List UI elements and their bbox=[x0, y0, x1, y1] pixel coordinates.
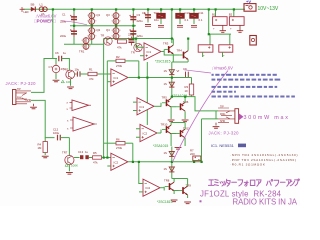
svg-text:C6: C6 bbox=[55, 51, 59, 55]
ground R4 bbox=[42, 156, 49, 158]
svg-text:TR3: TR3 bbox=[163, 42, 169, 46]
pu bbox=[295, 179, 300, 186]
svg-text:C5: C5 bbox=[142, 11, 146, 15]
transistor pair Q4 row2 bbox=[106, 26, 121, 40]
ground jack J2 bbox=[213, 127, 220, 129]
wire base rail ch1 PNP bbox=[160, 103, 162, 107]
svg-text:TR7: TR7 bbox=[62, 150, 68, 154]
op-amp IC1B bbox=[136, 39, 164, 61]
svg-text:Q3: Q3 bbox=[106, 13, 110, 17]
transistor TR8 npn bbox=[164, 179, 174, 195]
svg-text:IC2: IC2 bbox=[114, 160, 119, 164]
svg-text:·R0,R1 3Ω1MΩOK: ·R0,R1 3Ω1MΩOK bbox=[230, 162, 266, 166]
svg-text:TIP: TIP bbox=[220, 106, 224, 109]
svg-text:1M: 1M bbox=[38, 146, 43, 150]
svg-text:TIP: TIP bbox=[17, 88, 21, 91]
svg-text:C13: C13 bbox=[78, 150, 84, 154]
svg-text:1S: 1S bbox=[164, 69, 168, 73]
svg-text:+: + bbox=[230, 27, 232, 31]
filter cell column C2 row2 bbox=[60, 26, 77, 45]
svg-text:10u: 10u bbox=[154, 18, 159, 22]
svg-text:270k: 270k bbox=[116, 146, 123, 150]
svg-text:TR: TR bbox=[101, 34, 105, 38]
op-amp IC1C bbox=[133, 98, 161, 115]
diode D1 SB bbox=[30, 3, 35, 12]
wa bbox=[274, 180, 278, 186]
svg-text:+V: +V bbox=[246, 0, 251, 4]
svg-text:R6: R6 bbox=[116, 138, 120, 142]
svg-text:TR5: TR5 bbox=[162, 95, 168, 99]
transistor TR7 fet bbox=[62, 150, 74, 164]
transistor pair Q2 row2 bbox=[87, 26, 101, 45]
diode D4 bbox=[164, 151, 175, 156]
svg-text:TR1: TR1 bbox=[79, 50, 85, 54]
wire: +V rail bbox=[22, 8, 245, 10]
annotation top-left magenta bbox=[34, 13, 87, 24]
svg-text:100u: 100u bbox=[53, 131, 60, 135]
wire: lower bus right bbox=[104, 38, 172, 40]
svg-text:IC1: IC1 bbox=[147, 50, 152, 54]
bar bbox=[232, 181, 237, 183]
svg-text:RNG: RNG bbox=[17, 96, 22, 99]
transistor pair Q1 bbox=[87, 9, 101, 25]
connector X2 bbox=[250, 36, 256, 46]
cap C5 with gnd bbox=[142, 9, 151, 26]
svg-text:10u: 10u bbox=[75, 67, 80, 71]
wire: lower bus left bbox=[64, 39, 104, 45]
wire base rail ch1 NPN bbox=[164, 50, 179, 56]
op-amp spare IC2C bbox=[67, 100, 92, 111]
svg-text:C10: C10 bbox=[185, 11, 191, 15]
svg-text:IC2: IC2 bbox=[143, 132, 148, 136]
op-amp IC2B bbox=[139, 162, 164, 196]
svg-text:TR: TR bbox=[131, 51, 135, 55]
cap C8 bbox=[75, 67, 89, 76]
n bbox=[290, 181, 294, 186]
svg-text:x: x bbox=[67, 119, 69, 123]
svg-text:IC1. NE5531: IC1. NE5531 bbox=[211, 143, 235, 148]
cap C13 ceramic bbox=[74, 150, 92, 159]
svg-text:L1: L1 bbox=[40, 3, 44, 7]
svg-text:↓Vmax6.6V: ↓Vmax6.6V bbox=[212, 66, 234, 71]
battery box B1 bbox=[212, 9, 227, 32]
svg-text:IC1: IC1 bbox=[140, 105, 145, 109]
transistor TR10 pnp bbox=[161, 123, 172, 147]
svg-text:47k: 47k bbox=[93, 161, 98, 165]
ground TR7 bbox=[68, 165, 70, 172]
svg-text:47k: 47k bbox=[117, 46, 122, 50]
bar2 bbox=[280, 181, 285, 183]
op-amp IC1A bbox=[107, 69, 191, 86]
svg-text:220u: 220u bbox=[137, 34, 144, 38]
svg-text:LED: LED bbox=[24, 10, 29, 14]
coupling cap box CO1 bbox=[198, 34, 213, 57]
ground C7 bbox=[53, 80, 60, 82]
long vertical bus A bbox=[103, 44, 105, 157]
wire emitter join ch2 top bbox=[171, 122, 185, 124]
green triangle marker TR2 label bbox=[61, 80, 64, 83]
svg-text:RNG: RNG bbox=[220, 113, 225, 116]
svg-text:TR4: TR4 bbox=[177, 49, 183, 53]
node +V stub left bbox=[20, 7, 29, 14]
wire: right drop bbox=[209, 9, 231, 34]
svg-text:*2SA1015: *2SA1015 bbox=[153, 144, 168, 148]
ground TR9 bbox=[184, 202, 191, 204]
transistor TR4 npn bbox=[177, 39, 189, 63]
filter cap C3 bbox=[129, 9, 143, 25]
svg-text:220u: 220u bbox=[128, 33, 135, 37]
svg-text:SB: SB bbox=[30, 3, 34, 7]
svg-text:1S: 1S bbox=[164, 151, 168, 155]
svg-text:Q1: Q1 bbox=[97, 13, 101, 17]
svg-text:+: + bbox=[203, 54, 205, 58]
svg-text:·PNP TR3 2SA1015GL(-2SA1950): ·PNP TR3 2SA1015GL(-2SA1950) bbox=[230, 158, 296, 162]
coupling cap box CO2 bbox=[219, 34, 233, 57]
svg-text:*2SC1815: *2SC1815 bbox=[155, 60, 171, 64]
svg-text:TR8: TR8 bbox=[164, 179, 170, 183]
bullet dot bbox=[200, 200, 202, 202]
transistor TR11 pnp bbox=[171, 123, 190, 147]
wire emitter join ch1 top bbox=[172, 61, 188, 63]
green triangle marker TR7 label bbox=[65, 164, 68, 167]
diode chain ch2 bbox=[171, 147, 173, 179]
svg-text:R5: R5 bbox=[93, 151, 97, 155]
svg-text:100K: 100K bbox=[71, 163, 78, 167]
long vertical bus B bbox=[106, 82, 108, 158]
transistor TR3 npn bbox=[163, 39, 174, 63]
svg-text:RADIO KITS IN JA: RADIO KITS IN JA bbox=[233, 198, 298, 206]
junction dots top bbox=[52, 8, 235, 39]
resistor R5 bbox=[93, 151, 111, 165]
a bbox=[256, 180, 261, 186]
feedback network IC1A bbox=[107, 55, 139, 81]
svg-text:B1: B1 bbox=[212, 13, 216, 17]
leader line short bbox=[184, 70, 211, 73]
svg-text:B2: B2 bbox=[229, 13, 233, 17]
snubber column 2 bbox=[176, 9, 190, 27]
ro bbox=[250, 180, 254, 185]
ground ch2 pnp bbox=[175, 148, 182, 150]
speaker arrow magenta bbox=[239, 113, 244, 120]
transistor TR6 pnp bbox=[171, 97, 189, 119]
svg-text:300mW max: 300mW max bbox=[244, 115, 289, 121]
svg-text:+: + bbox=[213, 27, 215, 31]
svg-text:R1: R1 bbox=[89, 67, 93, 71]
battery box B2 bbox=[229, 9, 244, 32]
title line1 katakana (drawn) bbox=[208, 179, 299, 186]
bias ecap C7 circle bbox=[49, 59, 66, 80]
svg-text:x: x bbox=[67, 107, 69, 111]
jack J1 body bbox=[13, 88, 34, 106]
small o bbox=[244, 181, 248, 186]
svg-text:Vf: Vf bbox=[177, 69, 180, 73]
svg-text:0.1: 0.1 bbox=[185, 18, 189, 22]
svg-text:1u: 1u bbox=[63, 51, 67, 55]
svg-text:SHD: SHD bbox=[220, 120, 225, 123]
transistor TR2 fet bbox=[63, 68, 75, 79]
wire jack switch link bbox=[215, 111, 217, 119]
svg-text:0.1: 0.1 bbox=[199, 18, 203, 22]
cap C6 input coupling ch1 bbox=[55, 51, 67, 62]
svg-text:IC2: IC2 bbox=[146, 186, 151, 190]
ground TR2 bbox=[70, 79, 72, 86]
diode D5 bbox=[164, 167, 175, 172]
svg-text:10: 10 bbox=[185, 89, 189, 93]
svg-text:SHD: SHD bbox=[26, 99, 31, 102]
jack J2 body bbox=[216, 106, 239, 126]
wire base rail ch2 PNP bbox=[160, 130, 162, 134]
transistor TR5 pnp bbox=[162, 95, 172, 119]
svg-text:TR10: TR10 bbox=[161, 123, 168, 127]
svg-text:x: x bbox=[67, 127, 69, 131]
transistor TR9 npn bbox=[174, 179, 192, 199]
svg-text:JACK: PJ-320: JACK: PJ-320 bbox=[6, 81, 37, 86]
inductor L1 bead bbox=[39, 3, 47, 16]
svg-text:*2SC1815: *2SC1815 bbox=[157, 200, 173, 204]
snubber R/C column 1 bbox=[154, 9, 166, 27]
pa bbox=[266, 180, 272, 186]
mi bbox=[214, 180, 218, 186]
filter cell column C1 bbox=[60, 9, 77, 25]
ta bbox=[225, 179, 230, 186]
svg-text:IC1: IC1 bbox=[114, 76, 119, 80]
leader line long bbox=[173, 71, 229, 163]
cap bias bbox=[128, 33, 135, 46]
op-amp spare IC2D bbox=[67, 117, 97, 131]
svg-text:TH1: TH1 bbox=[154, 11, 160, 15]
diode chain vertical bbox=[171, 62, 173, 97]
svg-text:220: 220 bbox=[190, 152, 195, 156]
cap C9 small bbox=[183, 67, 188, 77]
vertical bus C bbox=[146, 62, 148, 125]
svg-text:+: + bbox=[223, 54, 225, 58]
ground TR5 bbox=[168, 120, 175, 122]
filter cap C4 row2 bbox=[129, 26, 143, 39]
transistor circ bias2 bbox=[101, 34, 113, 46]
navy note lines bbox=[212, 74, 295, 98]
svg-text:1S: 1S bbox=[164, 82, 168, 86]
svg-text:1S: 1S bbox=[164, 167, 168, 171]
svg-text:Q4: Q4 bbox=[106, 28, 110, 32]
small tsu bbox=[220, 181, 224, 186]
svg-text:220u: 220u bbox=[60, 34, 67, 38]
svg-text:C11: C11 bbox=[199, 11, 204, 15]
wire jack R feed bbox=[202, 118, 219, 120]
svg-text:TR9: TR9 bbox=[186, 184, 192, 188]
wire: mid bus bbox=[70, 25, 136, 27]
svg-text:x: x bbox=[67, 101, 69, 105]
wire: input L to ch1 bbox=[31, 59, 57, 93]
wire into TR2 bbox=[66, 59, 69, 71]
wire ch2 out vertical bbox=[201, 119, 203, 162]
power connector X1 bbox=[244, 4, 256, 12]
transistor circ bias3 bbox=[131, 43, 142, 54]
wire into TR7 bbox=[68, 138, 70, 156]
resistor R3 vertical bbox=[185, 78, 194, 97]
fu bbox=[238, 180, 243, 186]
diode D3 bbox=[164, 82, 175, 87]
resistor R1 bbox=[88, 67, 111, 80]
wire output bus ch1 bbox=[172, 97, 218, 111]
svg-text:C7: C7 bbox=[49, 65, 53, 69]
wire: long drop to output stage bbox=[171, 9, 173, 43]
wire: input R to ch2 bbox=[31, 100, 55, 137]
cap C12 coupling ch2 bbox=[53, 127, 69, 140]
wire base rail ch2 NPN bbox=[163, 187, 165, 191]
junction dots mid bbox=[103, 38, 203, 164]
diode D2 bbox=[164, 69, 180, 75]
resistor R7 bbox=[190, 149, 201, 161]
svg-text:270k: 270k bbox=[116, 64, 123, 68]
svg-text:Q2: Q2 bbox=[97, 28, 101, 32]
transistor pair bias bbox=[79, 37, 91, 54]
svg-text:220u: 220u bbox=[60, 20, 67, 24]
ground TR6 bbox=[182, 120, 189, 122]
op-amp IC2A bbox=[107, 153, 201, 170]
op-amp IC2C drive pnp bbox=[136, 124, 161, 141]
snubber column 3 bbox=[190, 9, 204, 27]
wire: left bias drop bbox=[52, 9, 54, 58]
svg-text:1u: 1u bbox=[85, 150, 89, 154]
svg-text:R2: R2 bbox=[116, 55, 120, 59]
feedback network IC2A bbox=[104, 138, 133, 162]
svg-text:TR2: TR2 bbox=[63, 68, 69, 72]
ground jack J1 bbox=[30, 107, 37, 109]
svg-text:JACK: PJ-320: JACK: PJ-320 bbox=[209, 130, 240, 135]
a2 bbox=[286, 180, 291, 186]
resistor bias bbox=[117, 40, 127, 50]
svg-text:10V~13V: 10V~13V bbox=[258, 6, 279, 12]
svg-text:TR6: TR6 bbox=[183, 100, 189, 104]
svg-text:47k: 47k bbox=[89, 77, 94, 81]
transistor pair Q3 bbox=[106, 9, 121, 25]
ground TR8 bbox=[171, 200, 178, 202]
svg-text:C1: C1 bbox=[62, 13, 66, 17]
resistor R4 vertical bbox=[38, 138, 48, 155]
e bbox=[208, 180, 214, 186]
svg-text:C3: C3 bbox=[137, 13, 141, 17]
svg-text:·NPN TR2 2SC1815GL(-2SC5130): ·NPN TR2 2SC1815GL(-2SC5130) bbox=[230, 153, 298, 157]
svg-text:220u: 220u bbox=[137, 19, 144, 23]
